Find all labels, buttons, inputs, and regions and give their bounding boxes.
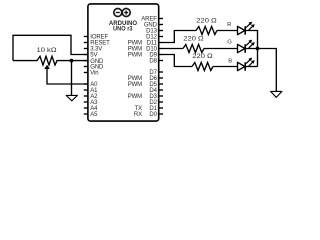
wire resistor to LED B (213, 66, 238, 68)
svg-text:R: R (227, 22, 231, 28)
resistor 220 G (183, 45, 204, 53)
LED B (blue) (238, 58, 255, 71)
node: pot/GND junction (70, 59, 74, 63)
left pin stubs (84, 37, 89, 115)
svg-text:220 Ω: 220 Ω (192, 53, 213, 60)
wire: wiper to A0 (47, 69, 88, 85)
LED R (red) (238, 22, 255, 35)
node: common cathode junction (256, 47, 260, 51)
svg-text:5V: 5V (90, 53, 97, 59)
wire: D11 to resistor R row (163, 31, 196, 43)
wire: D10 to resistor G row (163, 48, 183, 50)
wire resistor to LED R (217, 30, 238, 32)
svg-text:RX: RX (134, 112, 142, 118)
resistor 220 B (192, 63, 213, 71)
svg-text:Vin: Vin (90, 71, 98, 77)
ground symbol right (271, 91, 282, 97)
left pin labels (90, 35, 110, 119)
resistor 220 R (196, 27, 217, 35)
wire: LED B cathode to common (246, 66, 258, 68)
svg-text:PWM: PWM (128, 53, 142, 59)
svg-text:B: B (228, 59, 232, 65)
ground symbol left (66, 95, 77, 101)
wire resistor to LED G (204, 48, 238, 50)
potentiometer R1 10k (13, 56, 88, 65)
pot wiper arrow (44, 65, 50, 69)
Arduino logo (114, 9, 130, 17)
wire: 5V loop from pot left terminal (13, 35, 88, 60)
svg-text:D8: D8 (149, 59, 157, 65)
svg-text:PWM: PWM (128, 94, 142, 100)
svg-text:220 Ω: 220 Ω (196, 17, 217, 24)
svg-text:D0: D0 (149, 112, 157, 118)
LED G (green) (238, 40, 255, 53)
Arduino Uno U1 body (88, 4, 159, 121)
svg-text:UNO r3: UNO r3 (113, 25, 133, 32)
svg-text:10 kΩ: 10 kΩ (37, 47, 57, 54)
wire to ground (71, 61, 73, 96)
wire: D9 to resistor B row (163, 55, 192, 67)
wire: LED G cathode to ground (246, 49, 276, 92)
wire: LED R cathode down (246, 31, 258, 67)
svg-text:PWM: PWM (128, 82, 142, 88)
svg-text:A5: A5 (90, 112, 98, 118)
right pin stubs (159, 19, 164, 115)
right pin labels (128, 17, 158, 119)
svg-text:G: G (227, 40, 232, 46)
svg-text:220 Ω: 220 Ω (183, 35, 204, 42)
